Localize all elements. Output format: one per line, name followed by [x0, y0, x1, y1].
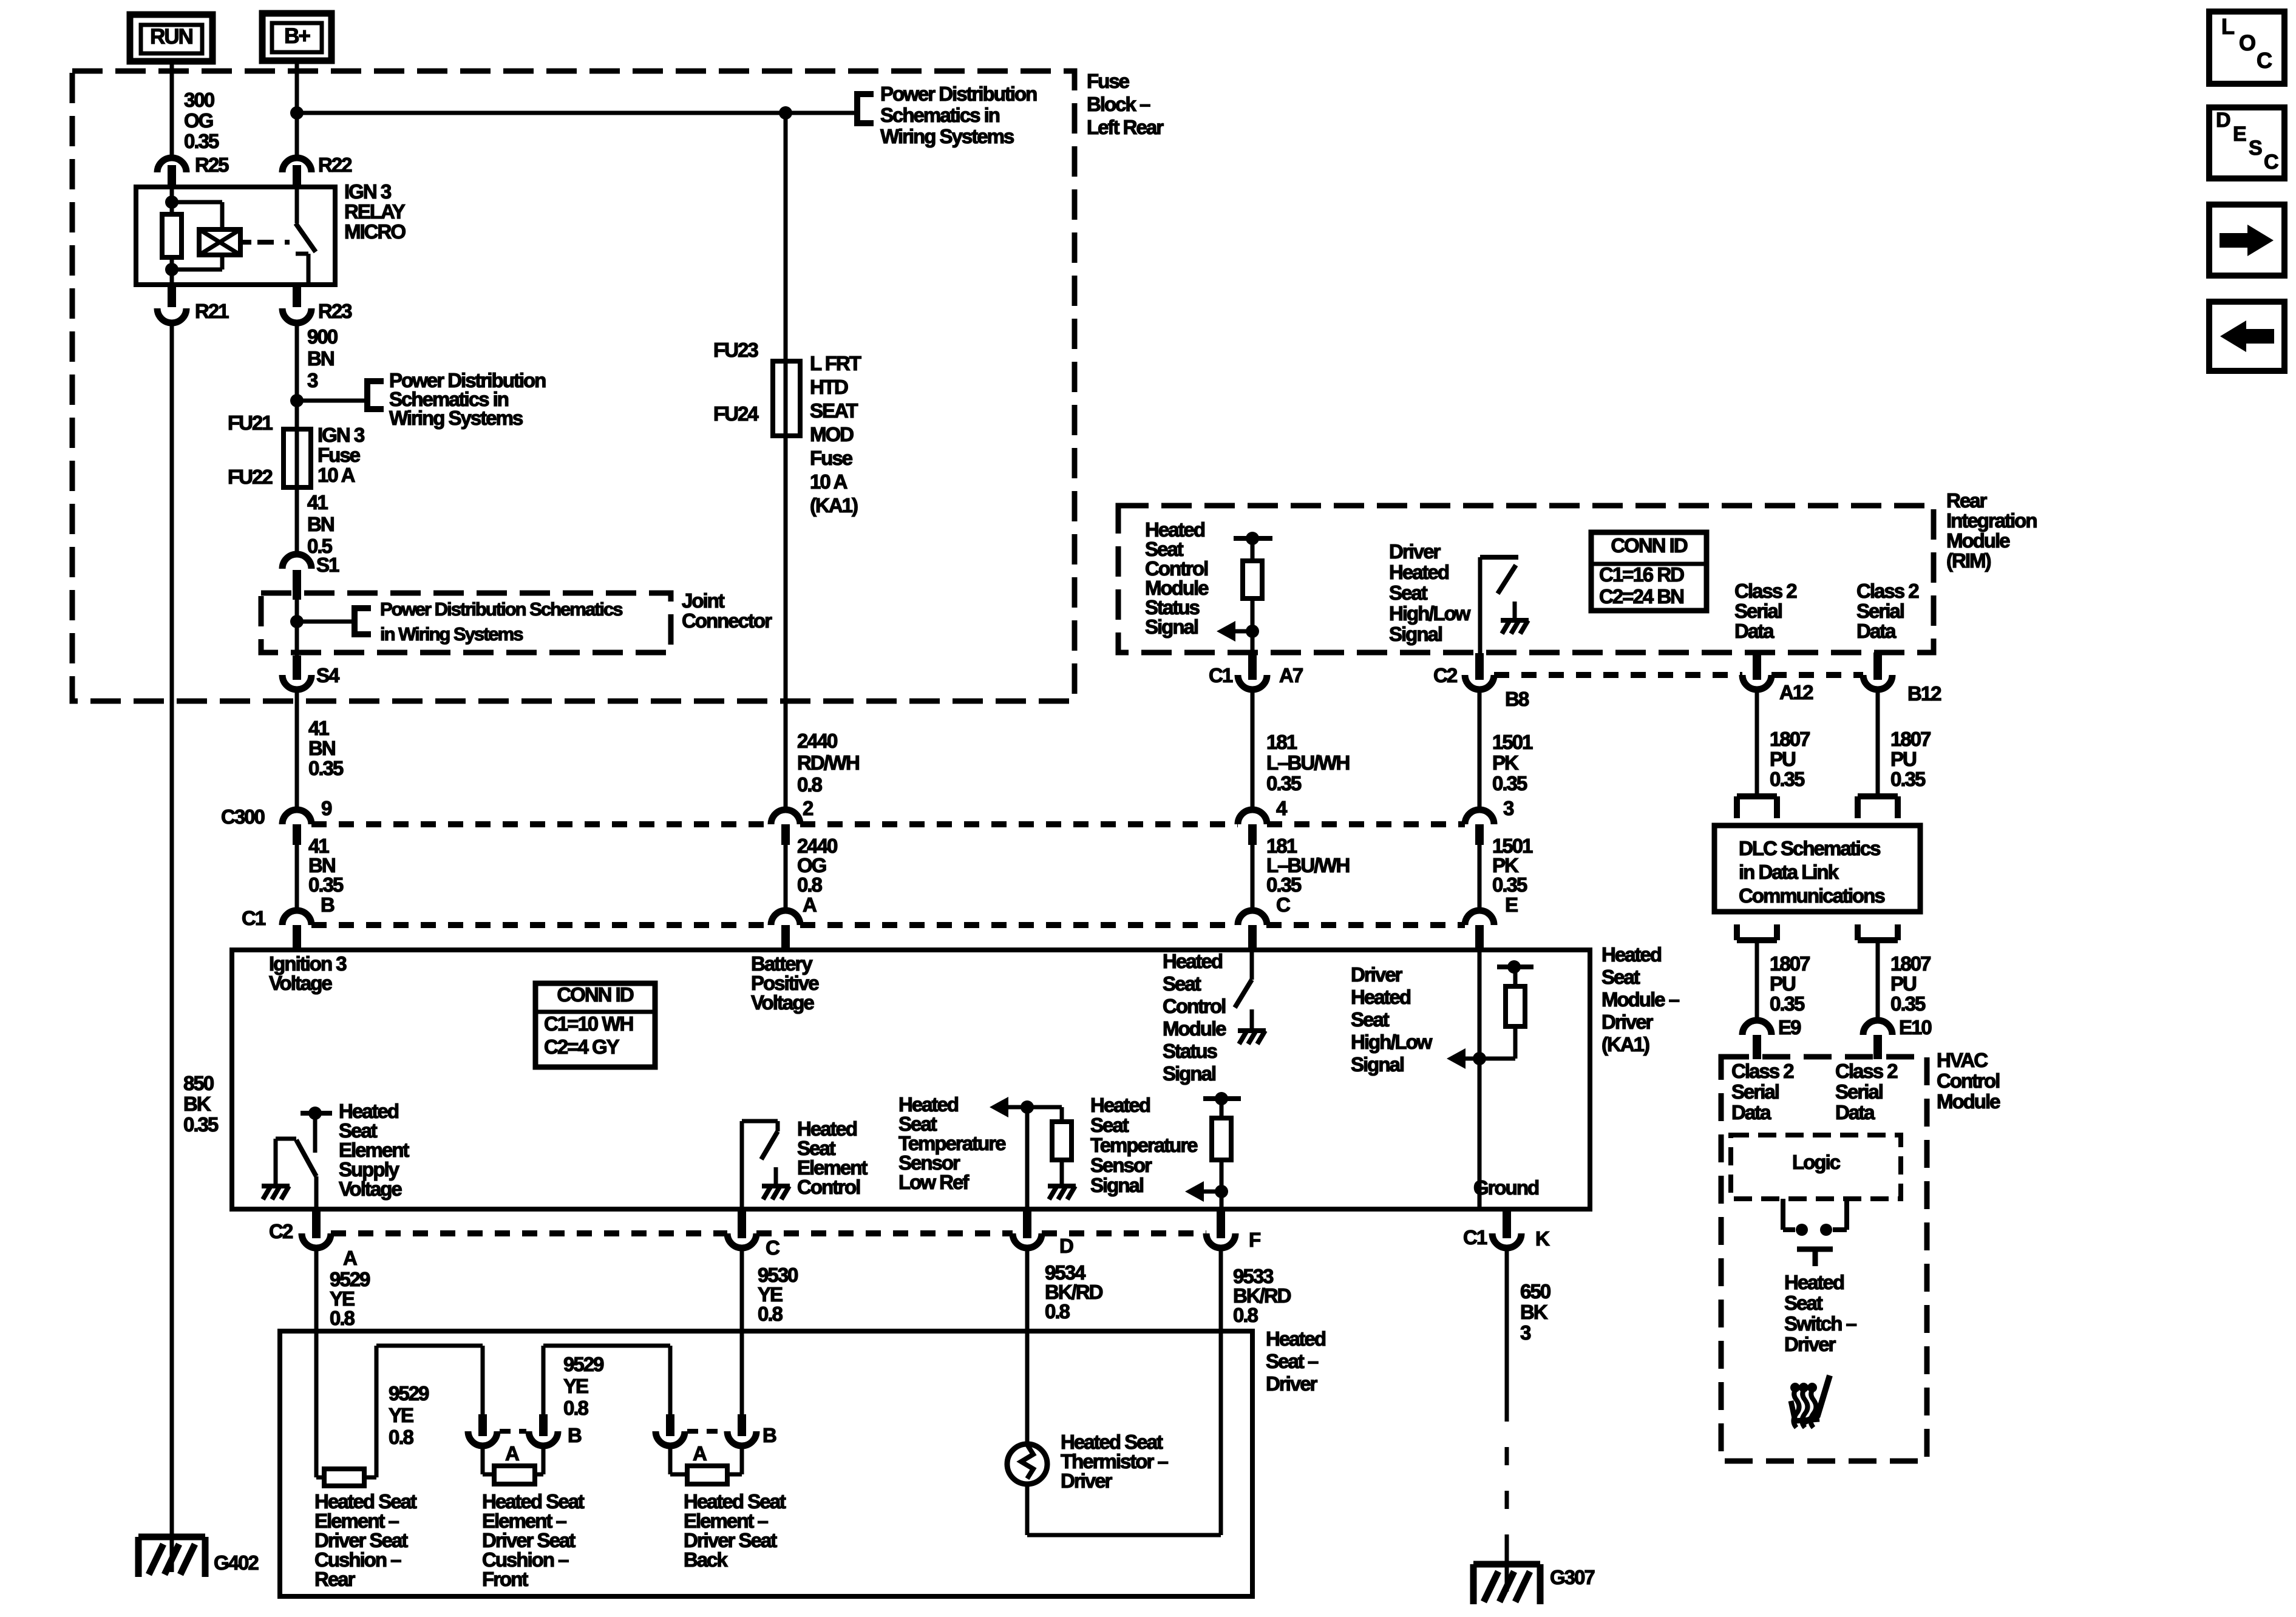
- resistor (high/low): [1506, 986, 1525, 1026]
- connector C2 pin A: [302, 1209, 357, 1269]
- resistor (sensor signal): [1212, 1118, 1231, 1160]
- wire label 41 BN 0.5: [307, 491, 334, 557]
- connector dashed link element 3: [687, 1429, 725, 1434]
- svg-text:Communications: Communications: [1739, 884, 1884, 907]
- relay coil resistor: [162, 214, 182, 257]
- svg-text:in Data Link: in Data Link: [1739, 861, 1839, 883]
- arrow out (sensor signal): [1185, 1181, 1204, 1202]
- wire label 1807 PU 0.35 (B12): [1890, 728, 1931, 790]
- svg-text:Driver: Driver: [1784, 1333, 1836, 1355]
- connector C2 pin C: [727, 1209, 779, 1259]
- svg-text:Voltage: Voltage: [269, 972, 332, 994]
- svg-text:Back: Back: [684, 1548, 729, 1571]
- svg-text:41: 41: [307, 491, 328, 514]
- svg-text:K: K: [1535, 1227, 1550, 1250]
- wire label 1807 PU 0.35 (A12): [1770, 728, 1810, 790]
- label Heated Seat Control Module Status Signal (RIM): [1145, 518, 1209, 638]
- svg-text:Serial: Serial: [1731, 1080, 1779, 1103]
- svg-text:9529: 9529: [563, 1353, 604, 1375]
- control module status signal switch (module): [1235, 950, 1252, 1028]
- svg-text:Heated: Heated: [1090, 1094, 1150, 1116]
- svg-text:2: 2: [803, 797, 813, 819]
- label Heated Seat Element Control: [797, 1117, 868, 1198]
- connector C1 pin K: [1463, 1209, 1550, 1250]
- svg-text:(RIM): (RIM): [1946, 549, 1991, 572]
- svg-text:9: 9: [321, 797, 332, 819]
- legend box LOC: [2209, 12, 2284, 84]
- svg-text:Control: Control: [797, 1176, 860, 1198]
- wire C300-9 to C1-B: [295, 845, 299, 912]
- connector R23: [282, 285, 352, 323]
- svg-text:C: C: [766, 1236, 779, 1259]
- label Heated Seat Thermistor - Driver: [1061, 1431, 1169, 1492]
- svg-text:Signal: Signal: [1163, 1062, 1215, 1085]
- component box Heated Seat - Driver: [280, 1331, 1252, 1596]
- svg-text:Driver: Driver: [1389, 540, 1441, 563]
- connector C1 pin A: [771, 893, 817, 947]
- svg-text:A: A: [343, 1247, 357, 1269]
- wire label 1501 PK 0.35 (lower): [1492, 835, 1533, 896]
- svg-text:0.35: 0.35: [1890, 992, 1926, 1015]
- in-line connector bracket below DLC (left): [1737, 924, 1777, 940]
- label Power Distribution Schematics in Wiring Systems (mid): [389, 369, 546, 429]
- svg-text:0.8: 0.8: [330, 1307, 355, 1329]
- svg-text:C1: C1: [1209, 664, 1233, 686]
- svg-text:Serial: Serial: [1856, 600, 1904, 622]
- connector pin B12: [1863, 653, 1941, 705]
- svg-text:(KA1): (KA1): [1601, 1033, 1649, 1056]
- svg-text:Heated: Heated: [1351, 986, 1410, 1008]
- svg-text:181: 181: [1266, 731, 1297, 753]
- svg-text:0.35: 0.35: [308, 873, 344, 896]
- svg-text:BN: BN: [308, 737, 335, 759]
- svg-text:41: 41: [308, 717, 329, 739]
- svg-text:G402: G402: [214, 1551, 259, 1574]
- svg-text:Ground: Ground: [1473, 1176, 1538, 1199]
- svg-text:Seat: Seat: [1601, 966, 1640, 988]
- relay K? IGN 3 RELAY MICRO outline: [136, 187, 335, 285]
- svg-text:Data: Data: [1835, 1101, 1875, 1124]
- svg-text:PU: PU: [1770, 748, 1795, 770]
- svg-text:Seat –: Seat –: [1266, 1350, 1319, 1372]
- label Heated Seat Control Module Status Signal (module): [1163, 950, 1226, 1085]
- in-line connector bracket above DLC (left): [1737, 796, 1777, 818]
- svg-text:A: A: [693, 1442, 707, 1465]
- svg-text:R23: R23: [318, 300, 352, 322]
- svg-text:A12: A12: [1779, 681, 1813, 703]
- wire FU22 to S1: [295, 487, 299, 555]
- box DLC Schematics in Data Link Communications: [1714, 825, 1920, 912]
- wire A7 to C300 pin 4: [1251, 690, 1255, 812]
- fuse FU21/FU22 IGN 3 Fuse 10 A: [284, 429, 311, 487]
- svg-text:Signal: Signal: [1389, 623, 1442, 645]
- wire label 850 BK 0.35: [183, 1072, 219, 1136]
- svg-text:Module: Module: [1163, 1017, 1226, 1040]
- svg-text:Class 2: Class 2: [1856, 580, 1919, 602]
- svg-text:Seat: Seat: [1784, 1292, 1823, 1314]
- svg-text:HTD: HTD: [810, 376, 848, 398]
- wire C300-3 to C1-E: [1478, 845, 1482, 912]
- svg-text:1807: 1807: [1890, 728, 1931, 750]
- svg-text:E9: E9: [1778, 1016, 1801, 1039]
- svg-text:0.35: 0.35: [1492, 873, 1527, 896]
- connector pin E9: [1742, 1016, 1801, 1059]
- connector C300 pin 9: [282, 797, 332, 845]
- wire 850 BK left run to G402: [170, 322, 174, 1572]
- label Class 2 Serial Data (RIM B12): [1856, 580, 1919, 642]
- svg-text:0.8: 0.8: [389, 1426, 414, 1448]
- svg-text:FU21: FU21: [228, 412, 273, 434]
- label Heated Seat Temperature Sensor Signal: [1090, 1094, 1198, 1196]
- svg-text:C2=4 GY: C2=4 GY: [544, 1036, 620, 1058]
- svg-text:1807: 1807: [1770, 952, 1810, 975]
- svg-text:YE: YE: [563, 1375, 588, 1397]
- splice S1: [282, 554, 339, 600]
- ground G402: [138, 1537, 259, 1577]
- wire label 9533 BK/RD 0.8 (pin F): [1233, 1265, 1291, 1326]
- svg-text:C2: C2: [269, 1220, 293, 1242]
- wire C300-4 to C1-C: [1251, 845, 1255, 912]
- svg-text:0.8: 0.8: [797, 773, 823, 796]
- terminal box RUN: [130, 15, 212, 61]
- svg-text:BK: BK: [183, 1093, 211, 1115]
- svg-text:Module: Module: [1937, 1090, 2000, 1113]
- label Heated Seat Switch - Driver: [1784, 1271, 1857, 1355]
- module HVAC Control Module dashed outline: [1721, 1057, 1927, 1461]
- resistor (low ref): [1052, 1122, 1072, 1160]
- svg-text:Serial: Serial: [1734, 600, 1782, 622]
- svg-text:HVAC: HVAC: [1937, 1049, 1988, 1071]
- wire label 9530 YE 0.8 (pin C): [758, 1264, 798, 1325]
- svg-text:Voltage: Voltage: [751, 991, 814, 1014]
- svg-text:Rear: Rear: [314, 1568, 356, 1590]
- svg-text:RD/WH: RD/WH: [797, 751, 859, 774]
- svg-text:0.35: 0.35: [308, 757, 344, 779]
- svg-text:Left Rear: Left Rear: [1087, 116, 1164, 138]
- in-line connector bracket below DLC (right): [1858, 924, 1898, 940]
- wire label 300 OG 0.35: [184, 89, 219, 152]
- relay solenoid coil symbol: [199, 229, 251, 255]
- connector C300 dashed line: [311, 821, 1465, 827]
- svg-text:Heated: Heated: [1389, 561, 1449, 583]
- svg-text:Control: Control: [1163, 995, 1225, 1017]
- svg-text:Signal: Signal: [1090, 1174, 1143, 1196]
- svg-text:650: 650: [1520, 1280, 1550, 1303]
- svg-text:B12: B12: [1907, 682, 1941, 705]
- svg-text:O: O: [2239, 30, 2255, 55]
- connector pin E10: [1863, 1016, 1931, 1059]
- heated seat element - driver seat cushion rear (resistor): [324, 1469, 364, 1486]
- fuse FU23/FU24 L FRT HTD SEAT MOD Fuse 10 A (KA1): [773, 361, 800, 436]
- svg-text:2440: 2440: [797, 730, 837, 752]
- svg-text:C1: C1: [1463, 1226, 1487, 1249]
- wire label 9529 YE 0.8 (element jumper 1): [389, 1382, 429, 1448]
- svg-text:C: C: [1276, 893, 1290, 916]
- relay actuator dashed linkage: [257, 240, 290, 245]
- svg-text:0.8: 0.8: [758, 1303, 783, 1325]
- RIM high/low switch: [1480, 557, 1518, 653]
- temperature sensor low ref branch: [1008, 1100, 1062, 1209]
- svg-text:Status: Status: [1163, 1040, 1217, 1062]
- svg-text:L FRT: L FRT: [810, 352, 861, 375]
- svg-text:C: C: [2264, 151, 2278, 174]
- driver heated seat high/low branch (module): [1465, 950, 1515, 1209]
- label Heated Seat - Driver: [1266, 1327, 1325, 1395]
- wire label 1807 PU 0.35 (E10): [1890, 952, 1931, 1015]
- svg-text:A: A: [803, 893, 817, 916]
- relay switch contact: [296, 187, 316, 282]
- connector C1 pin B: [282, 893, 335, 947]
- svg-text:9529: 9529: [389, 1382, 429, 1405]
- svg-text:CONN ID: CONN ID: [557, 983, 634, 1006]
- svg-text:Driver: Driver: [1601, 1011, 1654, 1033]
- connector C1 dashed line (module top): [311, 922, 1465, 928]
- svg-text:Sensor: Sensor: [1090, 1154, 1152, 1176]
- wire RUN to R25: [170, 61, 174, 159]
- wire B8 to C300 pin 3: [1478, 690, 1482, 812]
- label Rear Integration Module (RIM): [1946, 489, 2037, 572]
- svg-text:0.35: 0.35: [1770, 992, 1805, 1015]
- svg-text:Heated: Heated: [1163, 950, 1222, 972]
- wire to joint connector callout: [297, 620, 355, 624]
- arrow out (high/low): [1447, 1048, 1466, 1069]
- svg-text:Heated: Heated: [1266, 1327, 1325, 1350]
- svg-text:C1=10 WH: C1=10 WH: [544, 1012, 633, 1035]
- wire resistor to arrow (RIM): [1235, 598, 1259, 653]
- label Power Distribution Schematics in Wiring Systems (top): [880, 83, 1037, 147]
- svg-text:OG: OG: [184, 109, 213, 132]
- legend box DESC: [2209, 107, 2284, 178]
- svg-text:MICRO: MICRO: [344, 220, 406, 243]
- node FU21 callout junction: [290, 394, 304, 407]
- svg-text:Data: Data: [1734, 620, 1775, 642]
- arrow out (low ref): [990, 1097, 1008, 1117]
- node B+ tap junction: [290, 106, 304, 120]
- wire pin D down: [1025, 1248, 1030, 1445]
- svg-text:1807: 1807: [1890, 952, 1931, 975]
- wire B+ down to relay: [295, 61, 299, 159]
- svg-text:E: E: [1505, 893, 1518, 916]
- svg-text:Rear: Rear: [1946, 489, 1988, 512]
- svg-text:FU22: FU22: [228, 466, 273, 488]
- svg-text:L–BU/WH: L–BU/WH: [1266, 751, 1349, 774]
- connector C300 pin 3: [1465, 797, 1514, 845]
- svg-text:R25: R25: [195, 154, 229, 176]
- module Heated Seat Module - Driver outline: [232, 950, 1590, 1209]
- svg-text:Seat: Seat: [1090, 1114, 1129, 1136]
- svg-text:F: F: [1249, 1229, 1260, 1251]
- heated seat element 3 loop wires: [670, 1446, 742, 1474]
- connector C2 pin D: [1013, 1209, 1073, 1257]
- svg-text:Wiring Systems: Wiring Systems: [880, 125, 1014, 147]
- svg-text:0.8: 0.8: [797, 873, 823, 896]
- module RIM dashed outline: [1118, 506, 1934, 653]
- svg-text:Switch –: Switch –: [1784, 1312, 1857, 1335]
- thermistor return wire to pin F wire: [1027, 1484, 1221, 1535]
- ground G307: [1473, 1564, 1594, 1604]
- svg-text:0.35: 0.35: [1266, 772, 1302, 795]
- ground (low ref): [1048, 1184, 1076, 1188]
- svg-text:Signal: Signal: [1145, 615, 1198, 638]
- svg-text:Module: Module: [1946, 529, 2010, 552]
- wire resistor to arrow (sensor signal): [1203, 1160, 1228, 1209]
- wire resistor to ground (low ref): [1060, 1160, 1064, 1184]
- wire label 1807 PU 0.35 (E9): [1770, 952, 1810, 1015]
- label Heated Seat Element - Driver Seat Cushion - Front: [482, 1490, 585, 1590]
- svg-text:C2=24 BN: C2=24 BN: [1599, 585, 1683, 608]
- connector C2 dashed line (module bottom): [331, 1230, 1206, 1236]
- callout bracket Power Distribution (joint connector): [355, 605, 371, 637]
- svg-text:10 A: 10 A: [318, 464, 355, 486]
- temperature sensor signal branch: [1203, 1092, 1241, 1118]
- wire label 41 BN 0.35 (upper): [308, 717, 344, 779]
- svg-text:C1=16 RD: C1=16 RD: [1599, 563, 1684, 586]
- resistor (RIM status signal): [1243, 561, 1262, 598]
- svg-text:Temperature: Temperature: [1090, 1134, 1198, 1156]
- svg-text:FU23: FU23: [713, 339, 758, 361]
- svg-text:Integration: Integration: [1946, 509, 2037, 532]
- heated seat element - driver seat cushion front (resistor): [494, 1466, 535, 1484]
- svg-text:0.35: 0.35: [1492, 772, 1527, 795]
- svg-text:PK: PK: [1492, 751, 1519, 774]
- wire pin F down: [1219, 1248, 1223, 1535]
- svg-text:YE: YE: [389, 1404, 413, 1426]
- wire label 2440 RD/WH 0.8: [797, 730, 859, 796]
- svg-text:Power Distribution: Power Distribution: [880, 83, 1037, 105]
- connector C2 pin B8 (RIM): [1433, 653, 1529, 710]
- label Heated Seat Module - Driver (KA1): [1601, 943, 1680, 1056]
- svg-text:Class 2: Class 2: [1835, 1060, 1898, 1082]
- svg-text:S: S: [2249, 137, 2262, 160]
- terminal box B+: [262, 13, 331, 61]
- label Fuse Block - Left Rear: [1087, 70, 1164, 138]
- label Class 2 Serial Data (RIM A12): [1734, 580, 1797, 642]
- connector C1 pin E: [1465, 893, 1518, 947]
- wire label 181 L-BU/WH 0.35 (upper): [1266, 731, 1349, 795]
- wire label 2440 OG 0.8: [797, 835, 837, 896]
- label Heated Seat Element - Driver Seat Cushion - Rear: [314, 1490, 417, 1590]
- svg-text:SEAT: SEAT: [810, 399, 858, 422]
- svg-text:Heated: Heated: [1784, 1271, 1844, 1293]
- svg-text:1501: 1501: [1492, 731, 1533, 753]
- svg-text:3: 3: [1503, 797, 1514, 819]
- svg-text:Joint: Joint: [682, 589, 725, 612]
- wire label 41 BN 0.35 (lower): [308, 835, 344, 896]
- svg-text:BK: BK: [1520, 1301, 1548, 1323]
- label L FRT HTD SEAT MOD Fuse 10 A (KA1): [810, 352, 861, 517]
- svg-text:Fuse: Fuse: [1087, 70, 1130, 92]
- svg-text:Module –: Module –: [1601, 988, 1680, 1011]
- ground (element supply): [262, 1184, 290, 1188]
- svg-text:Connector: Connector: [682, 609, 772, 632]
- svg-text:Class 2: Class 2: [1731, 1060, 1794, 1082]
- label Power Distribution Schematics in Wiring Systems (joint connector): [380, 598, 622, 645]
- label HVAC Control Module: [1937, 1049, 2000, 1113]
- wire pin K down (650 BK): [1505, 1248, 1509, 1592]
- connector R25: [157, 154, 229, 188]
- svg-text:Serial: Serial: [1835, 1080, 1883, 1103]
- wire resistor to tap (high/low): [1497, 960, 1533, 986]
- svg-text:R21: R21: [195, 300, 229, 322]
- label Heated Seat Element Supply Voltage: [339, 1100, 409, 1200]
- joint connector dashed box: [261, 593, 671, 653]
- svg-text:Voltage: Voltage: [339, 1178, 402, 1200]
- label Joint Connector: [682, 589, 772, 632]
- wire FU24 to C300 pin 2: [784, 436, 788, 812]
- relay coil branch wires: [165, 187, 222, 285]
- svg-text:R22: R22: [318, 154, 352, 176]
- svg-text:B: B: [321, 893, 335, 916]
- box Logic dashed: [1731, 1135, 1901, 1199]
- svg-text:(KA1): (KA1): [810, 494, 858, 517]
- wire S4 to C300 pin 9: [295, 690, 299, 812]
- svg-text:Seat: Seat: [1389, 581, 1428, 604]
- connector dashed line C2/B8 to B12: [1494, 672, 1863, 678]
- element 2 to element 3 jumper wire: [543, 1346, 670, 1415]
- CONN ID box (module): [535, 983, 655, 1067]
- connector R21: [157, 285, 229, 323]
- svg-text:IGN 3: IGN 3: [344, 180, 392, 203]
- thermistor - driver (heated seat): [1007, 1444, 1047, 1484]
- wire label 650 BK 3: [1520, 1280, 1550, 1344]
- arrow out (RIM status signal): [1217, 621, 1235, 642]
- svg-text:Data: Data: [1856, 620, 1897, 642]
- svg-text:DLC Schematics: DLC Schematics: [1739, 837, 1880, 859]
- svg-text:Block –: Block –: [1087, 93, 1150, 115]
- connector dashed link element 2: [500, 1429, 526, 1434]
- legend box arrow left: [2209, 302, 2284, 371]
- svg-text:Seat: Seat: [1351, 1008, 1390, 1031]
- svg-text:B8: B8: [1505, 688, 1529, 710]
- svg-text:Signal: Signal: [1351, 1053, 1404, 1076]
- svg-text:High/Low: High/Low: [1389, 602, 1471, 625]
- wire DLC to E9: [1755, 940, 1759, 1022]
- connector R22: [282, 154, 352, 188]
- svg-text:B: B: [568, 1424, 582, 1446]
- wire label 9534 BK/RD 0.8 (pin D): [1045, 1261, 1103, 1323]
- svg-text:0.35: 0.35: [184, 130, 219, 152]
- heated seat element 2 loop wires: [483, 1446, 543, 1474]
- wire A12 to DLC: [1755, 690, 1759, 796]
- node FU23 tap junction: [779, 106, 792, 120]
- wire label 1501 PK 0.35 (upper): [1492, 731, 1533, 795]
- connector C2 pin F: [1206, 1209, 1260, 1251]
- connector C300 pin 2: [771, 797, 813, 845]
- callout bracket Power Distribution (mid): [367, 378, 384, 412]
- svg-text:4: 4: [1276, 797, 1288, 819]
- connector C300 pin 4: [1238, 797, 1288, 845]
- svg-text:0.8: 0.8: [563, 1397, 589, 1419]
- wire B12 to DLC: [1876, 690, 1880, 796]
- svg-text:CONN ID: CONN ID: [1611, 534, 1688, 557]
- svg-text:0.8: 0.8: [1233, 1304, 1258, 1326]
- svg-text:High/Low: High/Low: [1351, 1031, 1433, 1053]
- svg-text:0.35: 0.35: [1770, 768, 1805, 790]
- svg-text:Driver: Driver: [1351, 963, 1403, 986]
- svg-text:Heated: Heated: [1601, 943, 1661, 966]
- svg-text:L: L: [2221, 14, 2234, 39]
- svg-text:B+: B+: [284, 24, 310, 48]
- wire to mid callout: [297, 399, 367, 403]
- svg-text:Low Ref: Low Ref: [898, 1171, 970, 1193]
- svg-text:E: E: [2233, 123, 2246, 146]
- svg-text:850: 850: [183, 1072, 214, 1094]
- label Ignition 3 Voltage: [269, 952, 347, 994]
- svg-text:D: D: [2216, 109, 2230, 132]
- heated seat icon: [1790, 1375, 1830, 1428]
- svg-text:Front: Front: [482, 1568, 528, 1590]
- wire label 9529 YE 0.8 (element jumper 2): [563, 1353, 604, 1419]
